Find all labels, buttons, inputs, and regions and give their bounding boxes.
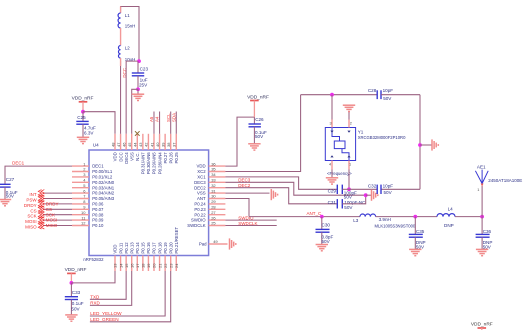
wire VDD_nRF to pin 13 [71, 271, 115, 283]
wire SWDIO pin 26 [225, 219, 276, 221]
svg-text:44: 44 [133, 142, 138, 147]
svg-text:DCC: DCC [118, 152, 123, 161]
U4 pad pin 49 [209, 243, 228, 245]
svg-text:10pF: 10pF [383, 184, 394, 189]
svg-text:27: 27 [211, 210, 216, 215]
wire pin 40 net A4 [159, 112, 161, 134]
svg-text:VDD_nRF: VDD_nRF [65, 267, 87, 273]
svg-text:12: 12 [81, 221, 86, 226]
svg-text:P0.08: P0.08 [92, 212, 104, 217]
svg-text:DRDY: DRDY [46, 202, 59, 207]
svg-text:DEC3: DEC3 [194, 180, 206, 185]
svg-text:LED_GREEN: LED_GREEN [90, 317, 118, 322]
ground at VSS wire end [271, 189, 277, 200]
wire pin 10 net SCK [43, 214, 72, 216]
svg-text:DEC4: DEC4 [124, 152, 129, 164]
inductor L2 [118, 46, 120, 59]
svg-text:C32: C32 [368, 183, 377, 188]
svg-text:U4: U4 [93, 142, 99, 147]
svg-text:50V: 50V [255, 134, 264, 139]
svg-text:C26: C26 [255, 117, 264, 122]
svg-text:P0.30/AIN6: P0.30/AIN6 [146, 152, 151, 175]
svg-text:N.C.: N.C. [135, 152, 140, 161]
svg-text:P0.15: P0.15 [141, 242, 146, 254]
svg-text:3: 3 [330, 122, 332, 126]
svg-text:38: 38 [166, 142, 171, 147]
svg-text:P0.05/AIN3: P0.05/AIN3 [92, 196, 115, 201]
svg-text:50V: 50V [322, 239, 331, 244]
svg-text:22: 22 [163, 263, 168, 268]
wire between L1 and L2 [120, 28, 122, 46]
wire SWDCLK pin 25 [225, 225, 276, 227]
svg-text:25V: 25V [139, 82, 148, 87]
svg-text:VSS: VSS [197, 191, 206, 196]
svg-text:C30: C30 [322, 223, 331, 228]
wire DEC4 rail from pin 46 up and right to C23 node [126, 61, 139, 134]
wire TXD from pin 15 [90, 271, 126, 299]
wire crystal top rail [301, 94, 378, 96]
svg-text:P0.09: P0.09 [92, 218, 104, 223]
svg-text:A4: A4 [155, 116, 160, 122]
wire ANT pin 30 to RF line [225, 199, 249, 217]
wire XC2 pin 35 to crystal top [225, 95, 300, 172]
svg-text:VDD: VDD [113, 245, 118, 254]
ground at pad 49 [230, 238, 236, 249]
node junction loop/DEC4/C23 [137, 59, 141, 63]
svg-text:25: 25 [211, 221, 216, 226]
wire VSS pin 45 rail to C23 ground node [132, 89, 138, 134]
svg-text:L1: L1 [125, 13, 130, 18]
svg-text:VSS: VSS [129, 152, 134, 161]
svg-text:DRDY: DRDY [24, 203, 37, 208]
svg-text:CS: CS [46, 207, 52, 212]
capacitor C25 [82, 112, 84, 122]
svg-text:C35: C35 [416, 229, 425, 234]
svg-text:P0.16: P0.16 [146, 242, 151, 254]
svg-text:19: 19 [146, 263, 151, 268]
svg-text:P0.00/XL1: P0.00/XL1 [92, 169, 113, 174]
svg-text:50V: 50V [6, 194, 15, 199]
wire VDD pin 36 to C26 [225, 117, 254, 166]
svg-text:33: 33 [211, 178, 216, 183]
svg-text:P0.31/AIN7: P0.31/AIN7 [141, 152, 146, 175]
svg-text:P0.18: P0.18 [157, 242, 162, 254]
svg-text:C25: C25 [77, 115, 86, 120]
svg-text:3.9nH: 3.9nH [379, 217, 391, 222]
capacitor C29 series [337, 185, 342, 194]
node junction antenna / C36 [480, 215, 484, 219]
wire crystal pin 2 to flipped ground [348, 112, 350, 120]
wire pin 41 net A5 [153, 112, 155, 134]
svg-text:1: 1 [349, 163, 351, 167]
wire pin 6 net INT [43, 192, 72, 194]
wire pin 8 net DRDY [43, 203, 72, 205]
svg-text:nRF52832: nRF52832 [83, 257, 104, 262]
U4 left pins 1-12 [72, 165, 89, 167]
svg-text:17: 17 [135, 263, 140, 268]
svg-text:P0.27: P0.27 [163, 152, 168, 164]
svg-text:VDD: VDD [197, 164, 206, 169]
capacitor C26 [253, 117, 255, 124]
svg-text:15nH: 15nH [125, 24, 136, 29]
inductor L3 [360, 214, 376, 217]
capacitor C23 [137, 61, 139, 73]
capacitor C36 shunt [481, 217, 483, 235]
wire right rail down [419, 95, 421, 190]
wire C31 right up to DEC3 node [342, 195, 365, 204]
svg-text:31: 31 [211, 188, 216, 193]
ground under C23 [137, 89, 139, 94]
svg-text:4: 4 [329, 163, 331, 167]
svg-text:50V: 50V [384, 190, 393, 195]
svg-text:50V: 50V [344, 205, 353, 210]
svg-text:VDD: VDD [113, 152, 118, 161]
svg-text:CS: CS [30, 208, 36, 213]
svg-text:15: 15 [124, 263, 129, 268]
svg-text:DEC2: DEC2 [194, 185, 206, 190]
svg-text:INT: INT [29, 192, 37, 197]
wire LED_GREEN from pin 23 [90, 271, 171, 322]
crystal Y1 box [325, 128, 355, 161]
svg-text:1: 1 [477, 188, 479, 192]
svg-text:43: 43 [138, 142, 143, 147]
svg-text:C31: C31 [328, 200, 337, 205]
svg-text:20: 20 [152, 263, 157, 268]
ground under C26 [248, 144, 260, 150]
svg-text:XRCGB32M000F2P10R0: XRCGB32M000F2P10R0 [358, 135, 406, 140]
svg-text:Pad: Pad [199, 242, 207, 247]
wire antenna to RF line [481, 186, 483, 217]
wire right rail bottom to C32 [381, 188, 420, 190]
svg-text:DNP: DNP [444, 223, 454, 228]
ground under C25 [77, 137, 89, 143]
wire RXD from pin 16 [90, 271, 132, 305]
ground under C35 [409, 249, 421, 255]
svg-text:P0.21/RESET: P0.21/RESET [174, 226, 179, 253]
svg-text:P0.24: P0.24 [194, 202, 206, 207]
svg-text:40: 40 [155, 142, 160, 147]
svg-text:SWDIO: SWDIO [191, 218, 206, 223]
svg-text:L4: L4 [448, 207, 454, 212]
svg-text:L2: L2 [125, 45, 130, 50]
svg-text:MISO: MISO [25, 225, 37, 230]
node junction right rail ground tap [418, 143, 422, 147]
ground under C36 [476, 249, 488, 255]
svg-text:ANT_C: ANT_C [307, 211, 323, 216]
ground under C30 [316, 245, 328, 251]
svg-text:DEC2: DEC2 [238, 183, 251, 188]
svg-text:6.3V: 6.3V [84, 131, 94, 136]
inductor L4 [437, 214, 455, 217]
svg-text:TXD: TXD [90, 294, 100, 299]
svg-text:49: 49 [213, 239, 218, 244]
wire pin 12 net MISO [43, 225, 72, 227]
svg-text:C27: C27 [6, 177, 15, 182]
svg-text:DEC3: DEC3 [238, 178, 251, 183]
svg-text:P0.28/AIN4: P0.28/AIN4 [157, 152, 162, 175]
svg-text:50V: 50V [383, 96, 392, 101]
svg-text:VDD_nRF: VDD_nRF [471, 322, 493, 328]
svg-text:C23: C23 [140, 66, 149, 71]
wire XC1 pin 34 to C29 row [225, 177, 337, 189]
node VDD_nRF/C33 junction [70, 281, 74, 285]
wire DCC rail up from pin 47 [120, 61, 122, 134]
svg-text:39: 39 [160, 142, 165, 147]
wire pin 37 net SDA [175, 112, 177, 134]
svg-text:42: 42 [144, 142, 149, 147]
node junction ANT_C / C30 [320, 215, 324, 219]
wire RF line to L3 [249, 216, 360, 218]
svg-text:21: 21 [157, 263, 162, 268]
ground right at DEC3 node [366, 194, 371, 196]
svg-text:MOSI: MOSI [46, 218, 58, 223]
no-connect squiggle MISO [38, 222, 41, 229]
svg-text:P0.06: P0.06 [92, 202, 104, 207]
svg-text:36: 36 [211, 161, 216, 166]
ground under C27 [0, 200, 11, 206]
svg-text:DEC1: DEC1 [12, 161, 25, 166]
svg-text:30: 30 [211, 194, 216, 199]
crystal pin marks [330, 131, 333, 133]
node junction DEC3/C31/ground [364, 193, 368, 197]
svg-text:SDA: SDA [171, 113, 176, 122]
svg-text:P0.26: P0.26 [168, 152, 173, 164]
wire DEC3 pin 33 [225, 182, 365, 195]
crystal Y1 internal symbol [332, 128, 340, 142]
svg-text:P0.10: P0.10 [92, 223, 104, 228]
wire LED_YELLOW from pin 22 [90, 271, 165, 316]
svg-text:L3: L3 [353, 218, 359, 223]
U4 right pins 36-25 [209, 165, 226, 167]
inductor L1 [118, 13, 121, 28]
svg-text:MOSI: MOSI [25, 219, 37, 224]
wire pin 7 net PSW [43, 198, 72, 200]
svg-text:P0.03/AIN1: P0.03/AIN1 [92, 185, 115, 190]
ground under C33 [65, 315, 77, 321]
svg-text:24: 24 [174, 263, 179, 268]
svg-text:P0.01/XL2: P0.01/XL2 [92, 175, 113, 180]
wire L3 to L4 [376, 216, 437, 218]
svg-text:C33: C33 [72, 290, 81, 295]
svg-text:P0.22: P0.22 [194, 212, 206, 217]
wire VDD_nRF to pin 48 [83, 112, 115, 134]
wire DEC1 from pin 1 [5, 166, 72, 184]
svg-text:50V: 50V [71, 306, 80, 311]
svg-text:16: 16 [129, 263, 134, 268]
svg-text:13: 13 [113, 263, 118, 268]
crystal pin stubs [331, 120, 333, 128]
svg-text:P0.29/AIN5: P0.29/AIN5 [152, 152, 157, 175]
ground under crystal pin 4 [326, 178, 338, 184]
svg-text:P0.12: P0.12 [124, 242, 129, 254]
svg-text:32: 32 [211, 183, 216, 188]
svg-text:48: 48 [110, 142, 115, 147]
svg-text:ANT: ANT [197, 196, 206, 201]
no-connect squiggle INT [38, 190, 41, 197]
svg-text:2450AT18A100E: 2450AT18A100E [488, 178, 522, 183]
node junction C35 [413, 215, 417, 219]
wire VSS pin 31 [225, 192, 269, 194]
node C23 bottom junction [136, 87, 140, 91]
ground (flipped) above crystal pin 2 [343, 105, 355, 111]
wire DEC2 pin 32 to C31 [225, 188, 337, 204]
no-connect squiggle DRDY [38, 200, 41, 207]
svg-text:P0.11: P0.11 [118, 242, 123, 254]
svg-text:AE1: AE1 [477, 165, 486, 170]
svg-text:LED_YELLOW: LED_YELLOW [90, 311, 122, 316]
capacitor C33 [70, 283, 72, 297]
wire L4 to antenna node [455, 216, 482, 218]
svg-text:P0.07: P0.07 [92, 207, 104, 212]
svg-text:P0.23: P0.23 [194, 207, 206, 212]
svg-text:P0.02/AIN0: P0.02/AIN0 [92, 180, 115, 185]
no-connect squiggle CS [38, 206, 41, 213]
wire crystal pin 4 to ground [331, 170, 333, 178]
capacitor C32 series [377, 185, 381, 194]
svg-text:50V: 50V [344, 194, 353, 199]
svg-text:45: 45 [127, 142, 132, 147]
wire crystal pin 1 down to C29 row [348, 170, 350, 190]
svg-text:37: 37 [172, 142, 177, 147]
svg-text:C29: C29 [328, 189, 337, 194]
svg-text:0.1uF: 0.1uF [72, 301, 84, 306]
svg-text:46: 46 [121, 142, 126, 147]
svg-text:P0.04/AIN2: P0.04/AIN2 [92, 191, 115, 196]
svg-text:SCK: SCK [46, 212, 55, 217]
node junction top rail / crystal pin 3 [330, 93, 334, 97]
svg-text:MLK1005S3N9ST000: MLK1005S3N9ST000 [375, 224, 416, 229]
svg-text:PSW: PSW [26, 198, 37, 203]
svg-text:XC1: XC1 [197, 175, 206, 180]
capacitor C35 shunt [414, 217, 416, 235]
U4 top pins 48-37 [114, 134, 116, 150]
capacitor C30 shunt [321, 217, 323, 230]
svg-text:10: 10 [81, 210, 86, 215]
svg-text:P0.25: P0.25 [174, 152, 179, 164]
svg-text:18: 18 [141, 263, 146, 268]
svg-text:P0.17: P0.17 [152, 242, 157, 254]
svg-text:26: 26 [211, 215, 216, 220]
svg-text:2: 2 [350, 122, 352, 126]
IC U4 nRF52832 MCU body [89, 150, 209, 256]
no-connect X on pin 44 [135, 131, 140, 136]
wire loop top [121, 7, 139, 62]
wire L2 bottom to DCC pin [120, 58, 122, 66]
svg-text:28: 28 [211, 205, 216, 210]
svg-text:MISO: MISO [46, 223, 58, 228]
svg-text:23: 23 [168, 263, 173, 268]
svg-text:VDD_nRF: VDD_nRF [72, 96, 94, 102]
svg-text:P0.19: P0.19 [163, 242, 168, 254]
svg-text:C28: C28 [368, 88, 377, 93]
svg-text:SCK: SCK [27, 214, 36, 219]
svg-text:10pF: 10pF [383, 88, 394, 93]
svg-text:Y1: Y1 [358, 129, 364, 134]
capacitor C31 series [337, 199, 342, 208]
svg-text:RXD: RXD [90, 301, 100, 306]
svg-text:47: 47 [116, 142, 121, 147]
svg-text:DEC1: DEC1 [92, 164, 104, 169]
svg-text:C36: C36 [483, 229, 492, 234]
U4 bottom pins 13-24 [114, 256, 116, 272]
svg-text:SWDCLK: SWDCLK [187, 223, 206, 228]
node junction crystal pin1 / C29 row [347, 187, 351, 191]
svg-text:34: 34 [211, 172, 216, 177]
no-connect squiggle SCK [38, 211, 41, 218]
svg-text:29: 29 [211, 199, 216, 204]
wire pin 9 net CS [43, 208, 72, 210]
svg-text:<Frequency>: <Frequency> [327, 171, 352, 176]
wire crystal pin 3 from top rail [331, 95, 333, 120]
node VDD_nRF/C25 junction [81, 110, 85, 114]
svg-text:P0.13: P0.13 [129, 242, 134, 254]
svg-text:35: 35 [211, 167, 216, 172]
svg-text:A5: A5 [149, 116, 154, 122]
no-connect squiggle PSW [38, 195, 41, 202]
svg-text:SWDCLK: SWDCLK [238, 221, 257, 226]
svg-text:41: 41 [149, 142, 154, 147]
capacitor C28 series [377, 90, 381, 99]
svg-text:P0.20: P0.20 [168, 242, 173, 254]
svg-text:XC2: XC2 [197, 169, 206, 174]
svg-text:SCL: SCL [166, 113, 171, 122]
svg-text:14: 14 [118, 263, 123, 268]
svg-text:P0.14: P0.14 [135, 242, 140, 254]
wire pin 38 net SCL [170, 112, 172, 134]
no-connect squiggle MOSI [38, 217, 41, 224]
wire pin 11 net MOSI [43, 219, 72, 221]
ground tap on right rail [420, 144, 432, 146]
wire C29 row to C32 [349, 188, 377, 190]
